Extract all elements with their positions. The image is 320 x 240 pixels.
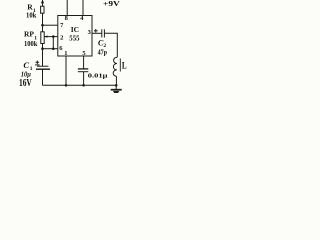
svg-text:1: 1 [64,50,67,57]
svg-text:100k: 100k [24,39,38,48]
svg-text:16V: 16V [19,77,32,89]
svg-text:10k: 10k [26,11,37,20]
svg-text:2: 2 [60,34,63,41]
svg-text:47p: 47p [98,49,107,57]
svg-text:C: C [23,60,29,70]
svg-text:L: L [122,62,127,72]
svg-text:0.01μ: 0.01μ [88,72,108,79]
svg-text:RP: RP [24,29,34,38]
svg-text:IC: IC [71,25,79,34]
svg-text:+9V: +9V [103,0,121,8]
svg-text:555: 555 [69,34,79,43]
